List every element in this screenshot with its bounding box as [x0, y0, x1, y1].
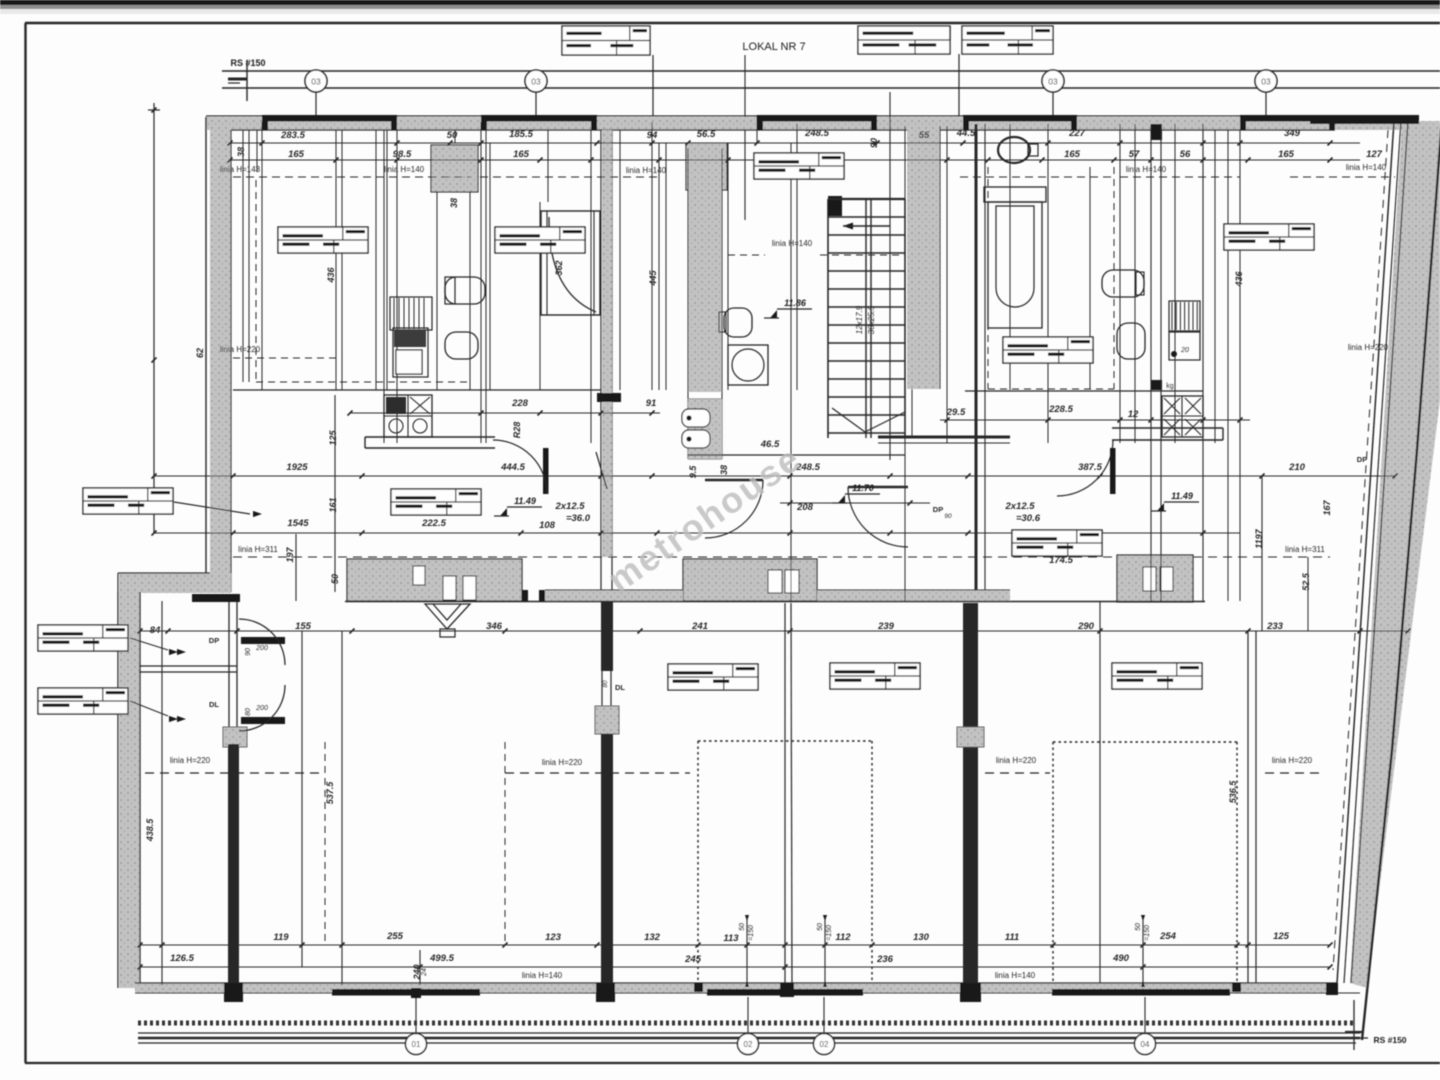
interior line x=455 — [454, 130, 456, 143]
interior wall line x=481 — [480, 122, 482, 443]
dashed line y177 c — [960, 176, 1114, 178]
svg-text:155: 155 — [295, 621, 312, 632]
room table — [495, 227, 585, 253]
svg-text:02: 02 — [744, 1040, 753, 1049]
svg-text:linia H=220: linia H=220 — [170, 756, 211, 765]
shaft mid gray — [686, 143, 727, 190]
door DL leaf — [241, 717, 285, 724]
svg-text:208: 208 — [796, 502, 814, 513]
svg-text:222.5: 222.5 — [421, 518, 446, 529]
svg-text:=36.0: =36.0 — [566, 513, 591, 524]
bottom wall window sill — [707, 989, 863, 996]
table leader f — [174, 502, 250, 514]
bottom RS mark — [1353, 1000, 1355, 1050]
svg-text:111: 111 — [1005, 932, 1019, 943]
washbasin right — [998, 137, 1030, 163]
flue box 7 — [1160, 567, 1173, 591]
left door arrow 1 — [177, 649, 186, 655]
svg-text:=30.6: =30.6 — [1016, 513, 1041, 524]
party wall A top block — [192, 594, 240, 602]
svg-text:linia H=140: linia H=140 — [995, 971, 1036, 980]
svg-text:03: 03 — [1261, 77, 1271, 87]
right slanted wall outer edge — [1362, 120, 1440, 1040]
lower room line x162 — [161, 601, 163, 985]
svg-text:499.5: 499.5 — [429, 953, 454, 964]
svg-text:239: 239 — [877, 621, 895, 632]
interior line x=666 — [665, 143, 667, 390]
svg-text:9.5: 9.5 — [688, 465, 698, 479]
small foot x416 — [411, 988, 421, 998]
title table 1 leader — [652, 55, 654, 116]
right wall top cap — [1310, 116, 1419, 124]
left exterior wall upper — [210, 117, 231, 592]
top wall window lintel — [963, 115, 1077, 122]
svg-text:123: 123 — [545, 932, 562, 943]
flag 11.70 — [832, 483, 880, 503]
bottom wall window sill — [332, 989, 480, 996]
interior wall line x=1048 — [1047, 124, 1049, 443]
wall y455 corridor — [688, 454, 905, 456]
corridor gray band — [688, 149, 722, 392]
stove left 2x2 — [384, 395, 432, 437]
svg-text:255: 255 — [386, 931, 404, 942]
dotted rect 1 — [698, 740, 872, 742]
dashed line y177 a — [233, 176, 470, 178]
svg-text:04: 04 — [1141, 1040, 1150, 1049]
svg-text:200: 200 — [255, 705, 268, 712]
wc unit2 b — [682, 430, 710, 448]
svg-text:130: 130 — [913, 932, 930, 943]
wc left — [445, 277, 485, 304]
bidet left — [445, 332, 478, 359]
interior line x=387 — [386, 130, 388, 390]
flue box 1 — [413, 566, 425, 585]
svg-text:=150: =150 — [826, 925, 833, 941]
door U3 arc — [848, 487, 908, 547]
door U3 leaf — [848, 486, 908, 489]
svg-text:linia H=140: linia H=140 — [1126, 165, 1167, 174]
interior line x=905 — [904, 455, 906, 601]
svg-text:linia H=140: linia H=140 — [1346, 163, 1387, 172]
svg-text:127: 127 — [1366, 149, 1383, 160]
interior line x=912 — [911, 199, 913, 438]
interior line x=540 — [539, 202, 541, 390]
svg-text:DP: DP — [209, 636, 219, 645]
svg-text:24: 24 — [421, 968, 428, 977]
room table — [830, 663, 920, 689]
svg-text:349: 349 — [1284, 128, 1301, 139]
svg-text:245: 245 — [684, 954, 702, 965]
dim line y143 — [230, 142, 1360, 144]
right slanted wall line a — [1337, 121, 1394, 983]
party wall A anchor — [223, 727, 247, 747]
interior wall line x=1308 — [1307, 557, 1309, 631]
svg-text:03: 03 — [531, 77, 541, 87]
svg-text:20: 20 — [1180, 347, 1189, 354]
interior line x=376 — [375, 130, 377, 390]
svg-text:438.5: 438.5 — [145, 818, 155, 843]
mid wall segment 1 — [347, 559, 522, 601]
svg-text:165: 165 — [513, 149, 530, 160]
svg-text:445: 445 — [648, 270, 658, 287]
party wall A foot — [224, 983, 243, 1002]
cabinet right dark — [1169, 332, 1200, 360]
room dashed right — [987, 167, 989, 389]
party wall B upper lines — [600, 130, 602, 601]
svg-text:200: 200 — [255, 645, 268, 652]
bench mark — [246, 60, 248, 101]
svg-text:210: 210 — [1288, 462, 1306, 473]
counter left — [365, 436, 495, 438]
mid wall dashed top — [233, 556, 1330, 558]
party wall D foot — [780, 983, 794, 997]
small foot x698 — [694, 983, 703, 992]
door U2 arc — [705, 480, 763, 538]
interior line x=1010 — [1009, 124, 1011, 390]
party wall E pair — [1247, 631, 1249, 983]
svg-text:38: 38 — [719, 465, 729, 475]
top exterior wall face line — [206, 115, 1419, 117]
top wall window lintel — [481, 115, 597, 122]
interior wall line x=154 — [153, 103, 155, 534]
top grid line upper — [222, 70, 1440, 72]
svg-text:165: 165 — [1278, 149, 1295, 160]
lower room line x302 — [301, 631, 303, 967]
party wall B thin mid — [601, 671, 603, 734]
party wall C anchor — [957, 727, 984, 747]
interior wall line x=490 — [489, 143, 491, 390]
grid bubble leader — [1052, 92, 1054, 120]
bottom line 2 — [138, 1037, 1360, 1039]
left door arrow 2 — [177, 716, 186, 722]
bottom dotted band — [138, 1021, 1356, 1026]
cabinet left dark — [393, 328, 428, 377]
interior line x=548 — [547, 130, 549, 202]
svg-text:03: 03 — [311, 77, 321, 87]
bottom bubble 01 — [406, 1034, 427, 1055]
svg-text:linia H=140: linia H=140 — [626, 166, 667, 175]
svg-text:=150: =150 — [748, 925, 755, 941]
top wall window jamb — [1329, 116, 1335, 130]
svg-text:2x12.5: 2x12.5 — [554, 501, 585, 512]
top wall window lintel — [1240, 115, 1419, 122]
interior line x=437 — [436, 190, 438, 390]
party wall B door head — [597, 393, 621, 402]
window leader 2 — [747, 997, 749, 1034]
grid bubble leader — [315, 92, 317, 120]
svg-text:436: 436 — [1234, 271, 1244, 288]
svg-text:linia H=140: linia H=140 — [772, 239, 813, 248]
room table — [1003, 337, 1093, 363]
window leader 3 — [823, 997, 825, 1034]
svg-text:113: 113 — [723, 933, 739, 944]
table leader g — [304, 476, 380, 497]
top scan bar — [0, 0, 1440, 5]
stair top entry line — [828, 198, 905, 200]
party wall B anchor — [595, 706, 619, 734]
top exterior wall inner line — [231, 129, 1335, 131]
room table — [754, 153, 844, 179]
title table 3 — [962, 26, 1053, 54]
bottom exterior wall band — [135, 983, 1337, 993]
svg-text:91: 91 — [646, 398, 657, 409]
svg-text:DL: DL — [209, 700, 219, 709]
svg-text:DP: DP — [933, 505, 943, 514]
dim line y945 — [140, 944, 1330, 946]
interior wall line x=947 — [946, 126, 948, 443]
interior line x=1175 — [1174, 124, 1176, 443]
svg-text:57: 57 — [1129, 149, 1140, 160]
svg-text:233: 233 — [1266, 621, 1284, 632]
room table — [668, 664, 758, 690]
svg-text:254: 254 — [1159, 931, 1177, 942]
top grid line lower — [222, 87, 1440, 89]
grid bubble leader — [1265, 92, 1267, 120]
bottom bubble 02 — [738, 1034, 759, 1055]
room table — [83, 488, 173, 514]
top wall window lintel — [757, 115, 877, 122]
svg-text:03: 03 — [1048, 77, 1058, 87]
flue box 3 — [463, 576, 476, 600]
svg-text:DP: DP — [1357, 455, 1367, 464]
room dashed left unit — [255, 180, 257, 382]
interior line x=243 — [242, 130, 244, 382]
door U4 arc — [1057, 440, 1113, 496]
svg-text:228.5: 228.5 — [1048, 404, 1073, 415]
grid bubble 03 — [525, 70, 547, 92]
svg-text:1925: 1925 — [286, 462, 308, 473]
svg-text:50: 50 — [1135, 923, 1142, 931]
bottom bubble 04 — [1135, 1034, 1156, 1055]
window dim stack — [1142, 917, 1144, 985]
grid bubble 03 — [1255, 70, 1277, 92]
svg-text:R28: R28 — [512, 422, 522, 439]
flue box 2 — [443, 576, 456, 600]
bathtub right — [984, 187, 1046, 202]
mid wall segment 2 — [683, 559, 817, 601]
svg-text:80: 80 — [602, 680, 609, 688]
interior wall line x=890 — [889, 92, 891, 460]
svg-text:LOKAL NR 7: LOKAL NR 7 — [742, 41, 805, 53]
wall y448 center — [878, 436, 1010, 439]
dim line y967 — [140, 966, 1330, 968]
svg-text:38: 38 — [449, 198, 459, 208]
svg-text:11.49: 11.49 — [514, 496, 536, 506]
svg-text:50: 50 — [817, 923, 824, 931]
svg-text:linia H=220: linia H=220 — [220, 345, 261, 354]
svg-text:108: 108 — [539, 520, 556, 531]
kitchen hood triangle — [425, 604, 470, 629]
interior line x=470 — [469, 190, 471, 390]
party wall C foot — [960, 983, 981, 1002]
right slanted wall dashed line — [1333, 130, 1388, 970]
top wall window lintel — [262, 115, 397, 122]
svg-text:185.5: 185.5 — [509, 129, 533, 140]
bottom line 3 — [138, 1042, 1356, 1044]
small foot x1330 — [1326, 983, 1338, 995]
cabinet right hatch — [1169, 301, 1200, 331]
lower dim vline x1100 — [1099, 601, 1101, 983]
room table — [38, 625, 128, 651]
svg-text:50: 50 — [330, 574, 340, 584]
svg-text:02: 02 — [820, 1040, 829, 1049]
svg-text:29.5: 29.5 — [946, 407, 966, 418]
corridor gray band lower — [688, 399, 722, 459]
LOKAL NR 7 leader — [744, 55, 746, 220]
room table — [278, 227, 368, 253]
svg-text:11.49: 11.49 — [1171, 491, 1193, 501]
svg-text:1197: 1197 — [1254, 528, 1264, 548]
dashed line y177 d — [1120, 176, 1240, 178]
top exterior wall band — [206, 117, 1419, 130]
dashed vert x325 — [324, 742, 326, 945]
room table — [1112, 663, 1202, 689]
svg-text:84: 84 — [150, 625, 161, 636]
interior wall line x=591 — [590, 130, 592, 443]
interior wall line x=797 — [796, 124, 798, 390]
svg-text:248.5: 248.5 — [804, 128, 829, 139]
svg-text:linia H=140: linia H=140 — [522, 971, 563, 980]
dim line y476 — [154, 475, 1395, 477]
dim line y503 — [780, 502, 930, 504]
interior line x=1215 — [1214, 130, 1216, 443]
dashed y773 — [145, 772, 325, 774]
shower left — [541, 211, 600, 315]
right slanted wall gray band — [1350, 121, 1440, 988]
svg-text:346: 346 — [486, 621, 503, 632]
svg-text:12: 12 — [1128, 409, 1139, 420]
dashed vert x505 — [504, 742, 506, 945]
svg-text:126.5: 126.5 — [170, 953, 194, 964]
bottom wall window sill — [1052, 989, 1230, 996]
interior line x=384 — [383, 130, 385, 443]
shower door arc — [549, 217, 596, 312]
interior wall line x=1262 — [1261, 476, 1263, 631]
interior wall line x=335 — [334, 395, 336, 592]
grid bubble 03 — [1042, 70, 1064, 92]
door U2 leaf — [705, 479, 763, 482]
svg-text:119: 119 — [273, 932, 289, 943]
lower room line x342 — [341, 631, 343, 985]
room line y390 left — [233, 389, 601, 391]
top wall window jamb — [871, 116, 877, 130]
svg-text:1545: 1545 — [287, 518, 309, 529]
window dim stack — [824, 917, 826, 985]
bottom line 1 — [138, 1032, 1360, 1034]
flue box 5 — [785, 570, 799, 593]
svg-text:RS #150: RS #150 — [230, 58, 265, 68]
right slanted wall line c — [1351, 121, 1408, 983]
svg-text:2x12.5: 2x12.5 — [1004, 501, 1035, 512]
svg-text:236: 236 — [876, 954, 894, 965]
svg-text:132: 132 — [644, 932, 661, 943]
grid bubble leader — [535, 92, 537, 120]
svg-text:167: 167 — [1322, 500, 1332, 516]
top wall window jamb — [391, 116, 397, 130]
window leader 4 — [1144, 997, 1146, 1034]
party wall C upper line — [975, 124, 978, 601]
interior wall line x=1120 — [1119, 124, 1121, 443]
svg-text:90: 90 — [869, 138, 879, 148]
svg-text:165: 165 — [288, 149, 305, 160]
svg-text:=150: =150 — [1144, 925, 1151, 941]
interior wall line x=1203 — [1202, 124, 1204, 601]
svg-text:436: 436 — [326, 267, 336, 284]
corridor cross lines — [688, 398, 722, 400]
mid wall segment 3 — [1117, 555, 1193, 602]
party wall B gray fill — [602, 130, 612, 557]
svg-text:125: 125 — [328, 430, 338, 446]
svg-text:80: 80 — [245, 708, 252, 716]
shaft left gray — [431, 145, 478, 192]
door DP arc — [239, 619, 285, 665]
stove right 2x2 — [1162, 396, 1203, 437]
interior line x=249 — [248, 130, 250, 382]
window dim stack2 — [419, 950, 421, 985]
interior wall line x=397 — [396, 130, 398, 443]
dotted rect 2 — [1053, 741, 1237, 743]
flue box 4 — [768, 570, 782, 593]
svg-text:165: 165 — [1064, 149, 1081, 160]
svg-text:490: 490 — [1112, 953, 1130, 964]
svg-text:55: 55 — [919, 130, 930, 141]
svg-text:537.5: 537.5 — [325, 781, 335, 805]
svg-text:12x17.9: 12x17.9 — [855, 305, 864, 334]
svg-text:125: 125 — [1273, 931, 1290, 942]
top wall window jamb — [1240, 116, 1246, 130]
dashed line y177 b — [480, 176, 660, 178]
svg-text:linia H=220: linia H=220 — [1272, 756, 1313, 765]
svg-text:112: 112 — [835, 932, 851, 943]
party wall B seg2 — [601, 734, 613, 985]
svg-text:228: 228 — [511, 398, 529, 409]
left wall jog — [119, 573, 231, 593]
svg-text:90: 90 — [944, 513, 952, 520]
interior wall line x=652 — [651, 122, 653, 390]
interior wall line x=757 — [756, 116, 758, 143]
interior line x=486 — [485, 122, 487, 443]
dashed line y177 e — [1290, 176, 1395, 178]
interior line x=342 — [341, 130, 343, 390]
top wall window jamb — [757, 116, 763, 130]
svg-text:38: 38 — [236, 147, 246, 157]
svg-text:241: 241 — [691, 621, 708, 632]
svg-text:50: 50 — [739, 923, 746, 931]
dim line y160 — [230, 159, 1360, 161]
svg-text:197: 197 — [285, 547, 295, 563]
interior wall line x=1161 — [1160, 124, 1162, 601]
svg-text:52.5: 52.5 — [1301, 572, 1311, 591]
interior wall line x=1240 — [1239, 130, 1241, 601]
svg-text:98.5: 98.5 — [393, 149, 412, 160]
svg-text:linia H=311: linia H=311 — [1285, 545, 1325, 554]
interior wall line x=296 — [295, 534, 297, 601]
door DL arc — [239, 685, 285, 731]
door DP leaf — [241, 637, 285, 644]
mid wall bottom line — [345, 601, 1205, 603]
interior wall line x=791 — [790, 143, 792, 601]
table leader i — [130, 638, 168, 650]
svg-text:linia H=220: linia H=220 — [542, 758, 583, 767]
svg-text:290: 290 — [1077, 621, 1095, 632]
door U1 arc — [493, 440, 547, 494]
dim line y631 — [140, 630, 1408, 632]
svg-text:94: 94 — [647, 130, 658, 141]
svg-text:56.5: 56.5 — [697, 129, 716, 140]
svg-text:linia H=220: linia H=220 — [996, 756, 1037, 765]
x154 ticks — [152, 108, 157, 113]
title table 2 — [858, 26, 950, 54]
